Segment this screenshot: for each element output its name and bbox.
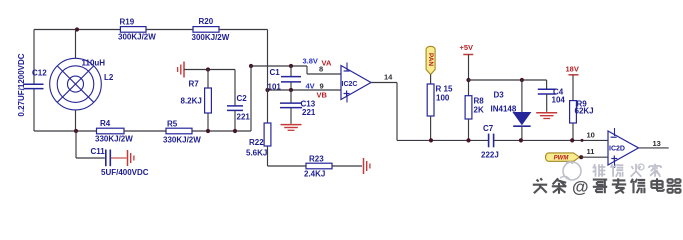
resistor R22: [264, 123, 271, 146]
capacitor C12: [24, 83, 44, 85]
svg-text:PWM: PWM: [554, 156, 570, 162]
wire L2 top lead: [75, 30, 77, 59]
svg-text:R20: R20: [199, 17, 214, 26]
svg-text:R7: R7: [189, 80, 200, 89]
resistor R20: [193, 27, 219, 33]
op-amp IC2C: [341, 66, 371, 100]
svg-text:5UF/400VDC: 5UF/400VDC: [101, 168, 149, 177]
node junction pin10: [581, 139, 584, 142]
wire C11 branch: [75, 131, 77, 158]
wire L2 bottom lead: [75, 110, 77, 131]
resistor R19: [120, 27, 146, 33]
capacitor C7 (series): [488, 134, 490, 148]
wire bottom rail: [34, 130, 251, 132]
svg-text:R23: R23: [309, 155, 324, 164]
svg-text:VB: VB: [317, 91, 328, 100]
node junction R15-bottom: [429, 138, 433, 142]
node junction C1-top: [289, 64, 293, 68]
svg-text:C12: C12: [32, 69, 47, 78]
svg-text:330KJ/2W: 330KJ/2W: [163, 136, 201, 145]
diode D3: [521, 80, 523, 112]
svg-text:C1: C1: [270, 68, 281, 77]
capacitor C2: [227, 105, 243, 107]
resistor R5: [166, 128, 192, 134]
node junction R7-top: [206, 67, 210, 71]
svg-text:R8: R8: [474, 97, 485, 106]
resistor R9: [572, 75, 574, 101]
resistor R4: [97, 128, 125, 134]
wire output drop x397: [396, 83, 398, 141]
ground R23 (right-pointing): [363, 158, 365, 174]
svg-text:13: 13: [653, 139, 661, 148]
svg-text:4V: 4V: [306, 82, 315, 91]
svg-text:2.4KJ: 2.4KJ: [304, 170, 325, 179]
svg-text:R19: R19: [120, 18, 135, 27]
node junction R8-bottom: [466, 138, 470, 142]
ground C11 (right-pointing): [127, 150, 129, 166]
svg-text:11: 11: [587, 147, 595, 156]
svg-text:C7: C7: [483, 124, 494, 133]
svg-text:C11: C11: [91, 147, 106, 156]
node junction PWM: [579, 155, 583, 159]
node junction C2-bottom: [233, 129, 237, 133]
capacitor C11: [105, 150, 107, 167]
watermark text toutiao @gezhuanxiudianqi (dark gray): [534, 179, 548, 194]
svg-text:@: @: [572, 178, 589, 197]
svg-text:10: 10: [587, 131, 595, 140]
ground C13 (down-pointing): [281, 124, 302, 126]
svg-text:100: 100: [436, 94, 450, 103]
capacitor C1: [290, 66, 292, 77]
node junction L2-bottom: [74, 129, 78, 133]
svg-text:R4: R4: [100, 119, 111, 128]
svg-text:8.2KJ: 8.2KJ: [181, 97, 202, 106]
wire A (inverting input net): [251, 65, 307, 67]
svg-text:D3: D3: [494, 91, 505, 100]
resistor R7: [207, 70, 209, 89]
resistor R23: [306, 163, 332, 169]
inductor L2 coil: [50, 58, 102, 110]
svg-text:R22: R22: [249, 138, 264, 147]
svg-text:5.6KJ: 5.6KJ: [246, 149, 267, 158]
wire IC2C output: [371, 82, 397, 84]
wire C11 to ground (red lead): [111, 157, 127, 159]
svg-text:18V: 18V: [566, 65, 579, 74]
wire top rail: [34, 29, 268, 31]
svg-text:221: 221: [302, 108, 316, 117]
node junction R7-bottom: [206, 129, 210, 133]
node junction wireA-left: [249, 64, 253, 68]
svg-text:VA: VA: [322, 59, 332, 68]
wire left column (C12 branch): [33, 30, 35, 85]
watermark logo circle: [563, 162, 581, 180]
svg-text:IN4148: IN4148: [491, 105, 517, 114]
ground C4 (down-pointing): [536, 112, 557, 114]
svg-text:2K: 2K: [474, 106, 484, 115]
wire IC2D output: [639, 147, 669, 149]
op-amp IC2D: [608, 131, 639, 165]
net flag PWM: [546, 153, 580, 161]
svg-text:300KJ/2W: 300KJ/2W: [192, 33, 230, 42]
watermark text weixiu-x-jia (light gray): [593, 164, 606, 177]
svg-text:62KJ: 62KJ: [575, 107, 594, 116]
svg-text:L2: L2: [104, 73, 114, 82]
wire +5V stem: [468, 55, 470, 96]
node junction R9-bottom: [570, 138, 574, 142]
svg-text:221: 221: [237, 113, 251, 122]
wire R23 row: [268, 165, 363, 167]
svg-text:IC2D: IC2D: [609, 146, 625, 153]
svg-text:222J: 222J: [481, 151, 499, 160]
resistor R8: [465, 96, 472, 119]
wire C2 drop: [234, 70, 236, 106]
wire +5V branch to C4: [469, 79, 547, 81]
svg-text:110uH: 110uH: [82, 59, 106, 68]
capacitor C4: [538, 88, 556, 90]
wire R20-R22 column: [267, 30, 269, 124]
node junction wireB-left: [265, 88, 269, 92]
svg-text:104: 104: [552, 96, 566, 105]
svg-text:C2: C2: [237, 94, 248, 103]
capacitor C13: [290, 90, 292, 103]
svg-text:0.27UF/1200VDC: 0.27UF/1200VDC: [17, 53, 26, 116]
node junction L2-top: [75, 27, 79, 31]
svg-text:IC2C: IC2C: [342, 81, 358, 88]
svg-text:R5: R5: [167, 120, 178, 129]
svg-text:PAN: PAN: [427, 53, 434, 67]
svg-text:300KJ/2W: 300KJ/2W: [118, 33, 156, 42]
wire B (non-inverting input net): [268, 89, 342, 91]
svg-text:14: 14: [384, 73, 393, 82]
net flag PAN: [426, 46, 435, 74]
svg-text:9: 9: [320, 82, 324, 91]
resistor R15: [430, 75, 432, 85]
wire right rail y140.4: [397, 139, 488, 141]
svg-text:+5V: +5V: [460, 43, 474, 52]
node junction D3-top: [520, 78, 524, 82]
ground G1 (left-pointing, signal): [183, 62, 185, 78]
wire PWM to pin11: [581, 156, 608, 158]
node junction +5V branch: [466, 78, 470, 82]
wire ground row y69.5: [184, 69, 235, 71]
svg-text:3.8V: 3.8V: [303, 57, 318, 66]
wire divider drop x251: [250, 66, 252, 131]
svg-text:330KJ/2W: 330KJ/2W: [95, 135, 133, 144]
node junction C13-top: [289, 88, 293, 92]
node junction D3-bottom: [519, 138, 523, 142]
svg-text:R 15: R 15: [436, 85, 453, 94]
